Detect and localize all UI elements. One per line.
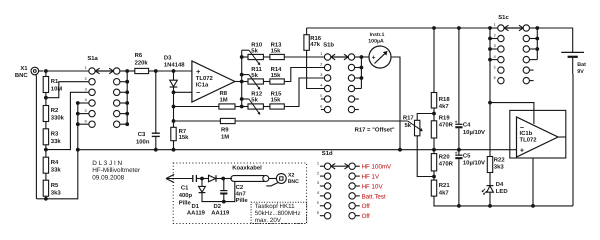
switch S1a wiper (95, 68, 113, 74)
svg-text:C5: C5 (463, 152, 471, 159)
svg-text:330k: 330k (51, 115, 65, 122)
svg-text:IC1a: IC1a (196, 81, 209, 88)
junction R18/R19 (432, 112, 436, 116)
svg-text:D3: D3 (164, 54, 172, 61)
wire IC1b feedback (490, 103, 534, 124)
resistor R3 (43, 129, 61, 145)
wire S1a pole 3 to R3/R4 tap (46, 92, 89, 149)
resistor R13 (263, 41, 284, 59)
wire R21 to bottom rail (434, 196, 573, 206)
wire R13 to S1b pole 1 (284, 56, 324, 58)
capacitor C4 (455, 28, 485, 150)
op-amp IC1a (192, 61, 235, 102)
svg-text:4: 4 (494, 55, 496, 59)
svg-text:S1b: S1b (323, 42, 334, 49)
svg-text:R21: R21 (439, 182, 451, 189)
svg-text:33k: 33k (51, 138, 62, 145)
svg-text:R14: R14 (271, 66, 283, 73)
svg-text:9V: 9V (577, 69, 584, 75)
wire R9 to R17 wiper (235, 120, 408, 122)
svg-text:R7: R7 (179, 128, 187, 135)
wire S1c to battery (537, 28, 572, 52)
svg-text:2: 2 (85, 77, 87, 81)
wire gain bus (240, 50, 244, 108)
svg-text:Instr.1: Instr.1 (370, 32, 385, 38)
junction input node (44, 69, 48, 73)
wire S1a output bus (120, 69, 129, 126)
svg-text:5: 5 (85, 109, 87, 113)
svg-text:R6: R6 (135, 52, 143, 59)
resistor R4 (43, 157, 61, 173)
svg-text:R12: R12 (251, 90, 263, 97)
svg-text:R11: R11 (251, 66, 262, 73)
wire R14 to S1b pole 2 (284, 68, 324, 82)
svg-text:1: 1 (317, 161, 319, 165)
svg-text:2: 2 (317, 171, 319, 175)
svg-text:R8: R8 (220, 90, 228, 97)
svg-text:TL072: TL072 (520, 137, 538, 144)
svg-text:R19: R19 (439, 114, 451, 121)
svg-text:1M: 1M (220, 96, 228, 103)
svg-text:Batt.Test: Batt.Test (362, 193, 386, 200)
resistor R14 (263, 66, 284, 84)
switch S1b wiper (331, 54, 348, 60)
wire S1b pole 5 stub (321, 98, 325, 100)
wire top rail (307, 27, 498, 29)
wire battery minus to bottom rail (572, 58, 574, 206)
wire ladder bottom to shield (36, 198, 46, 200)
junction probe ground (222, 200, 226, 204)
svg-text:HF 10V: HF 10V (362, 183, 384, 190)
svg-text:220k: 220k (135, 59, 149, 66)
svg-text:4k7: 4k7 (439, 190, 450, 197)
resistor R20 (431, 153, 453, 171)
svg-text:6: 6 (317, 211, 319, 215)
wire C1 to D2 (196, 178, 208, 180)
svg-text:5k: 5k (405, 122, 412, 129)
svg-text:C1: C1 (181, 184, 189, 191)
connector X1 BNC (15, 65, 44, 79)
svg-text:R5: R5 (51, 182, 59, 189)
svg-text:C3: C3 (138, 131, 146, 138)
net label Off (position 6) (362, 213, 370, 220)
svg-text:2: 2 (320, 63, 322, 67)
connector X2 BNC (266, 173, 299, 186)
svg-text:09.09.2008: 09.09.2008 (92, 174, 124, 181)
junction S1c bus top (488, 26, 492, 30)
svg-text:HF 100mV: HF 100mV (362, 164, 392, 171)
resistor R8 (174, 90, 242, 109)
trimmer R10 (242, 41, 264, 65)
junction C4/C5 mid rail (457, 148, 461, 152)
svg-text:+: + (372, 54, 376, 61)
svg-text:S1d: S1d (322, 150, 333, 157)
svg-text:10µ/10V: 10µ/10V (463, 160, 485, 167)
svg-text:R17: R17 (403, 114, 415, 121)
junction R9 tap (172, 119, 176, 123)
svg-text:5k: 5k (251, 48, 258, 55)
wire R15 to S1b pole 3 (284, 78, 324, 107)
svg-text:4: 4 (320, 84, 322, 88)
probe enclosure dotted box (173, 163, 306, 224)
svg-text:R10: R10 (251, 41, 263, 48)
svg-text:5: 5 (494, 65, 496, 69)
svg-text:D L 3 J I N: D L 3 J I N (92, 160, 122, 167)
junction D1 node (200, 177, 204, 181)
wire R17 top to R18/R19 junction (417, 114, 434, 121)
net label HF 1V (position 2) (362, 174, 380, 181)
wire R2 to R3 (45, 122, 47, 129)
probe spec dashed box (251, 202, 307, 224)
svg-text:C2: C2 (236, 184, 244, 191)
svg-text:3: 3 (317, 181, 319, 185)
junction ground bus rail (76, 148, 80, 152)
trimmer R11 (242, 66, 264, 90)
svg-text:R13: R13 (271, 41, 283, 48)
trimmer R12 (242, 90, 264, 114)
svg-text:15k: 15k (271, 48, 282, 55)
probe tip arrow (166, 174, 174, 182)
svg-text:Off: Off (362, 213, 370, 220)
svg-text:4: 4 (317, 191, 319, 195)
wire R20 to R21 (433, 171, 435, 180)
svg-text:R9: R9 (221, 127, 229, 134)
resistor R15 (263, 90, 284, 109)
svg-text:R3: R3 (51, 131, 59, 138)
diode D3 (164, 54, 185, 92)
wire X1 shield to ground bus (35, 74, 38, 199)
resistor R18 (431, 28, 450, 110)
svg-text:10M: 10M (51, 86, 63, 93)
switch S1b contacts (320, 52, 354, 113)
diode D1 (187, 179, 224, 217)
svg-text:4: 4 (85, 98, 87, 102)
svg-text:10µ/10V: 10µ/10V (463, 129, 485, 136)
op-amp IC1b (517, 117, 559, 157)
wire R17 bottom to R20/R21 junction (417, 136, 434, 177)
svg-text:Off: Off (362, 203, 370, 210)
op-amp IC1b box (510, 110, 566, 158)
wire R5 to ground node (45, 196, 47, 199)
battery Bat 9V (561, 52, 586, 75)
svg-text:1N4148: 1N4148 (164, 61, 185, 68)
switch S1b label (323, 42, 334, 49)
label R17 note (355, 126, 395, 133)
resistor R7 (171, 127, 189, 141)
svg-text:R2: R2 (51, 107, 59, 114)
wire R6 to node A (149, 70, 156, 72)
junction node A (154, 69, 158, 73)
svg-text:+: + (196, 67, 200, 76)
net label Off (position 5) (362, 203, 370, 210)
capacitor C5 (455, 150, 485, 206)
svg-text:Pille: Pille (236, 197, 249, 204)
svg-text:3k3: 3k3 (51, 189, 62, 196)
junction R19 mid rail (432, 148, 436, 152)
svg-text:5: 5 (317, 201, 319, 205)
wire probe tip to C1 (166, 178, 193, 180)
junction R8 tap (172, 105, 176, 109)
wire input node to S1a contact 1 (46, 70, 89, 72)
svg-text:R18: R18 (439, 96, 451, 103)
trimmer R17 (403, 114, 423, 136)
net label Batt.Test (position 4) (362, 193, 386, 200)
wire inverting node to op-amp - (174, 91, 192, 93)
wire coax to X2 (269, 178, 277, 180)
wire R3 to R4 (45, 145, 47, 157)
svg-text:IC1b: IC1b (520, 130, 533, 137)
svg-text:6: 6 (320, 105, 322, 109)
wire inverting bus (173, 92, 175, 149)
wire R1 to R2 (45, 93, 47, 106)
wire mid rail (78, 149, 517, 151)
svg-text:LED: LED (496, 188, 508, 195)
svg-text:−: − (196, 88, 200, 97)
switch S1d wiper (331, 163, 349, 169)
svg-text:R15: R15 (271, 90, 283, 97)
svg-text:4k7: 4k7 (439, 103, 450, 110)
svg-text:3k3: 3k3 (494, 164, 505, 171)
wire R4 to R5 (45, 173, 47, 180)
svg-text:X2: X2 (288, 173, 294, 179)
svg-text:S1a: S1a (87, 55, 98, 62)
svg-text:100µA: 100µA (368, 39, 384, 45)
svg-text:3: 3 (320, 73, 322, 77)
coax cable Koaxkabel (223, 164, 269, 181)
wire S1b common bus to meter (355, 55, 364, 88)
svg-text:5k: 5k (251, 97, 258, 104)
switch S1c label (498, 14, 509, 21)
junction D4 rail (488, 204, 492, 208)
junction R7 ground (172, 148, 176, 152)
junction feedback node (488, 101, 492, 105)
junction inverting node (172, 90, 176, 94)
svg-text:+: + (520, 145, 524, 154)
resistor R21 (431, 180, 450, 196)
svg-text:D4: D4 (496, 181, 504, 188)
resistor R9 (174, 118, 236, 140)
svg-text:3: 3 (494, 44, 496, 48)
svg-text:BNC: BNC (15, 72, 29, 79)
svg-text:15k: 15k (179, 134, 190, 141)
junction C3 ground (154, 148, 158, 152)
resistor R22 (487, 103, 505, 173)
svg-text:X1: X1 (20, 65, 28, 72)
switch S1c contacts (494, 23, 530, 84)
svg-text:R4: R4 (51, 159, 59, 166)
wire S1b throw 5 stub (355, 98, 359, 100)
svg-text:D1: D1 (192, 203, 200, 210)
wire S1b pole 6 stub (321, 109, 325, 111)
wire R16 to S1b pole 4 (307, 50, 325, 88)
svg-text:Pille: Pille (179, 199, 192, 206)
junction C4 top (457, 26, 461, 30)
svg-text:S1c: S1c (498, 14, 509, 21)
switch S1a contacts (85, 66, 120, 127)
junction R18 top (432, 26, 436, 30)
svg-text:470R: 470R (439, 122, 454, 129)
junction R20/R21 (432, 175, 436, 179)
wire S1a pole 5 to ground bus (76, 112, 89, 116)
switch S1a label (87, 55, 98, 62)
svg-text:1: 1 (320, 52, 322, 56)
svg-text:R22: R22 (494, 156, 506, 163)
svg-text:33k: 33k (51, 166, 62, 173)
wire IC1a output (235, 81, 242, 83)
junction ladder bottom (44, 197, 48, 201)
svg-text:Bat: Bat (577, 62, 586, 68)
svg-text:1M: 1M (221, 134, 229, 141)
wire S1a pole 2 to R1/R2 tap (46, 82, 89, 98)
wire R19 to mid rail (433, 138, 435, 154)
wire meter to mid rail (391, 57, 400, 150)
wire S1c right bus (530, 26, 540, 81)
wire S1b throw 6 stub (355, 109, 359, 111)
svg-text:5k: 5k (251, 72, 258, 79)
junction C2 node (221, 177, 225, 181)
switch S1d contacts (317, 161, 360, 219)
svg-text:HF 1V: HF 1V (362, 174, 380, 181)
diode D2 (209, 175, 231, 216)
wire ladder bottom to ground bus (46, 103, 78, 199)
svg-text:3: 3 (85, 88, 87, 92)
switch S1d label (322, 150, 333, 157)
svg-text:HF-Millivoltmeter: HF-Millivoltmeter (92, 167, 141, 174)
svg-text:6: 6 (494, 76, 496, 80)
wire probe ground to coax shield (224, 181, 235, 201)
svg-text:BNC: BNC (288, 179, 299, 185)
svg-text:2: 2 (494, 34, 496, 38)
svg-text:AA119: AA119 (211, 210, 230, 217)
junction IC1b rail (531, 204, 535, 208)
svg-text:470R: 470R (439, 161, 454, 168)
wire IC1b V- pin to bottom rail (532, 158, 534, 206)
svg-text:5: 5 (320, 94, 322, 98)
meter Instr.1 (361, 32, 391, 68)
resistor R1 (43, 77, 62, 93)
wire S1c left bus (488, 28, 498, 103)
resistor R16 (304, 28, 322, 50)
svg-text:4n7: 4n7 (236, 191, 247, 198)
wire ladder top (45, 71, 47, 77)
resistor R5 (43, 180, 61, 196)
net label HF 100mV (position 1) (362, 164, 392, 171)
svg-text:D2: D2 (214, 203, 222, 210)
resistor R2 (43, 106, 64, 122)
svg-text:R17 = "Offset": R17 = "Offset" (355, 126, 395, 133)
switch S1c wiper (504, 25, 523, 31)
svg-text:R20: R20 (439, 153, 451, 160)
svg-text:100n: 100n (136, 139, 150, 146)
resistor R19 (431, 114, 453, 138)
svg-text:AA119: AA119 (187, 210, 206, 217)
net label HF 10V (position 3) (362, 183, 384, 190)
junction meter rail (398, 148, 402, 152)
junction C5 bottom rail (457, 204, 461, 208)
svg-text:1: 1 (494, 23, 496, 27)
svg-text:1: 1 (85, 66, 87, 70)
wire R18 to junction (433, 108, 435, 121)
wire S1a pole 4 to ground bus (76, 101, 89, 105)
svg-text:C4: C4 (463, 121, 471, 128)
junction R1/R2 (44, 96, 48, 100)
junction R3/R4 (44, 148, 48, 152)
wire node A to op-amp + (156, 70, 192, 72)
svg-text:400p: 400p (179, 192, 193, 199)
title block (92, 160, 141, 182)
svg-text:15k: 15k (271, 72, 282, 79)
svg-text:max. 20V: max. 20V (255, 217, 282, 224)
svg-text:+: + (455, 151, 458, 157)
LED D4 (482, 173, 508, 206)
svg-text:47k: 47k (310, 41, 321, 48)
svg-text:Koaxkabel: Koaxkabel (232, 164, 262, 171)
wire S1a pole 6 to ground bus (76, 122, 89, 126)
svg-text:R1: R1 (51, 78, 59, 85)
capacitor C3 (136, 71, 160, 150)
resistor R6 (127, 52, 148, 74)
wire IC1b output (558, 136, 566, 138)
svg-text:15k: 15k (271, 97, 282, 104)
svg-text:+: + (455, 120, 458, 126)
svg-text:TL072: TL072 (196, 75, 214, 82)
capacitor C2 (220, 179, 248, 205)
svg-text:6: 6 (85, 119, 87, 123)
capacitor C1 (179, 175, 197, 206)
